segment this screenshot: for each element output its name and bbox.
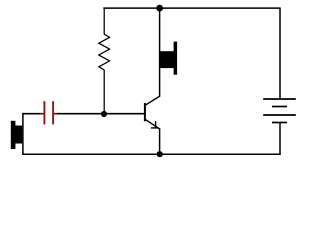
battery B1 plate short bottom bbox=[272, 122, 287, 124]
wire top supply rail bbox=[103, 7, 280, 9]
node bottom ground junction dot bbox=[157, 151, 163, 157]
wire capacitor to base node bbox=[58, 113, 105, 115]
wire battery - down to bottom rail bbox=[279, 123, 281, 155]
wire red stub right of C1 bbox=[54, 113, 58, 115]
battery B1 plate long top bbox=[263, 98, 296, 100]
transistor Q1 emitter diagonal bbox=[145, 119, 159, 128]
battery B1 plate short upper bbox=[272, 106, 287, 108]
wire collector up through earphone to top node bbox=[159, 8, 161, 96]
transistor Q1 base bar bbox=[144, 103, 146, 121]
microphone MIC vertical lead bbox=[22, 113, 24, 154]
wire base node to Q1 base bbox=[104, 113, 144, 115]
transistor Q1 emitter arrow barb vertical bbox=[155, 121, 157, 128]
capacitor C1 right plate bbox=[52, 101, 54, 124]
transistor Q1 emitter arrow barb horizontal bbox=[151, 127, 159, 129]
node top supply junction dot bbox=[156, 5, 163, 12]
earphone SPK body rectangle bbox=[160, 51, 174, 68]
capacitor C1 left plate bbox=[43, 101, 45, 124]
wire right side down to battery + bbox=[279, 8, 281, 99]
wire emitter down to bottom node bbox=[159, 128, 161, 154]
wire mic to capacitor bbox=[22, 113, 40, 115]
microphone MIC body rectangle bbox=[15, 126, 22, 144]
transistor Q1 collector diagonal bbox=[145, 96, 160, 105]
node base junction dot bbox=[101, 111, 107, 117]
microphone MIC outer bar bbox=[11, 121, 16, 149]
resistor R1 with leads bbox=[99, 8, 110, 114]
wire red stub left of C1 bbox=[40, 113, 44, 115]
wire bottom ground rail bbox=[22, 153, 281, 155]
battery B1 plate long lower bbox=[263, 114, 296, 116]
earphone SPK outer bar bbox=[174, 42, 178, 75]
